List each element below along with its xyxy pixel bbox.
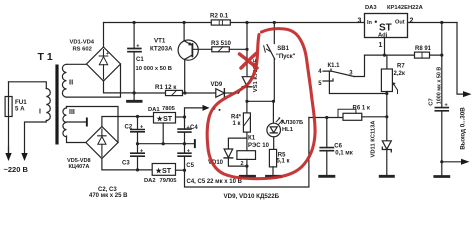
ground under R5	[267, 175, 281, 178]
svg-text:C4, C5 22 мк х 10 В: C4, C5 22 мк х 10 В	[187, 179, 243, 185]
wire top right branch	[441, 23, 443, 56]
svg-text:R2 0.1: R2 0.1	[210, 13, 229, 20]
wire VT1 base to R3	[192, 48, 247, 50]
wire output plus	[457, 23, 463, 95]
svg-text:АЛ307Б: АЛ307Б	[281, 120, 303, 126]
svg-text:КР142ЕН22А: КР142ЕН22А	[387, 5, 424, 11]
wire DA1 out arrow	[185, 108, 203, 117]
red marker loop annotation	[207, 29, 315, 179]
svg-text:VD1-VD4: VD1-VD4	[70, 40, 95, 46]
wire output minus	[442, 161, 461, 163]
svg-text:2,2к: 2,2к	[394, 71, 405, 77]
pushbutton SB1	[273, 23, 275, 44]
svg-text:+: +	[136, 44, 139, 50]
svg-text:VD11 КС113А: VD11 КС113А	[371, 120, 377, 158]
svg-text:R8 91: R8 91	[415, 46, 432, 52]
wire winding II bottom to bridge right	[67, 64, 121, 97]
svg-text:C2: C2	[125, 124, 133, 130]
ground under VD11	[380, 175, 393, 178]
winding III	[63, 107, 67, 137]
wire bridge1 minus to gnd node	[104, 81, 135, 93]
thyristor VS1	[246, 23, 248, 77]
ground under K1	[240, 175, 254, 178]
transformer T1 core	[55, 65, 58, 145]
fuse FU1	[8, 82, 10, 153]
svg-text:SB1: SB1	[277, 46, 289, 52]
svg-text:R4*: R4*	[231, 114, 242, 120]
node C5 bottom	[183, 169, 186, 172]
wire bridge2 plus rail	[102, 117, 154, 127]
svg-text:C5: C5	[186, 163, 194, 169]
svg-text:КТ203А: КТ203А	[150, 45, 173, 52]
svg-text:К1.1: К1.1	[328, 63, 341, 69]
svg-text:К1: К1	[248, 134, 256, 141]
svg-text:★ST: ★ST	[155, 166, 172, 175]
zener VD11 KS113A	[382, 141, 391, 149]
node gnd rail DA1	[162, 142, 165, 145]
svg-text:R3 510: R3 510	[211, 40, 232, 47]
node C7 bottom	[440, 160, 443, 163]
resistor R5 5.1k	[269, 149, 276, 167]
svg-text:RS 602: RS 602	[73, 46, 92, 52]
svg-text:79Л05: 79Л05	[160, 178, 178, 184]
wire top rail	[104, 22, 458, 24]
wire winding III top	[67, 107, 119, 143]
node gnd rail C4C5	[183, 142, 186, 145]
svg-text:РЭС 10: РЭС 10	[248, 143, 270, 149]
capacitor C3	[137, 144, 139, 154]
wire C1 node to R1	[134, 92, 165, 94]
svg-text:3: 3	[358, 18, 362, 25]
bridge rectifier VD1-VD4	[103, 23, 105, 48]
svg-text:★ST: ★ST	[156, 114, 173, 123]
svg-text:0,1 мк: 0,1 мк	[335, 151, 352, 157]
svg-text:DA3: DA3	[365, 5, 377, 11]
svg-text:R7: R7	[397, 64, 405, 70]
node C3 bottom	[136, 168, 139, 171]
svg-text:7805: 7805	[162, 106, 176, 112]
wire adj rail	[365, 54, 442, 56]
svg-text:C6: C6	[334, 143, 342, 149]
diode VD10	[228, 138, 247, 149]
svg-text:С7: С7	[428, 98, 434, 105]
bridge rectifier VD5-VD8	[86, 127, 118, 159]
wire zener branch	[386, 94, 388, 141]
svg-text:III: III	[69, 109, 75, 116]
svg-text:VD9: VD9	[211, 82, 223, 88]
svg-text:C4: C4	[190, 125, 198, 131]
node R1 VT1 emitter	[183, 91, 186, 94]
node C2 top	[136, 115, 139, 118]
svg-text:470 мк х 25 В: 470 мк х 25 В	[89, 193, 128, 199]
wire winding II top to bridge	[67, 63, 87, 65]
svg-text:DA2: DA2	[144, 178, 156, 184]
wire primary top	[9, 82, 47, 89]
svg-text:"Пуск": "Пуск"	[276, 54, 296, 60]
capacitor C7	[441, 55, 443, 108]
capacitor C2	[137, 117, 139, 130]
node top-rail C7 branch	[440, 21, 443, 24]
svg-text:+: +	[445, 103, 448, 109]
wire DA3 adj pin 1	[384, 38, 386, 56]
svg-text:Out: Out	[395, 20, 405, 26]
wire winding I return	[25, 121, 47, 154]
wire DA2 out	[176, 169, 185, 171]
wire R1 to VD9	[183, 92, 216, 94]
svg-text:II: II	[69, 78, 73, 87]
node R6 right	[385, 115, 388, 118]
svg-text:2: 2	[241, 161, 244, 167]
LED HL1	[272, 101, 274, 123]
chassis tap bar	[194, 139, 196, 148]
winding I	[46, 89, 50, 121]
svg-text:C1: C1	[136, 57, 144, 63]
svg-text:1 к: 1 к	[233, 121, 241, 127]
voltage regulator DA2 79L05	[152, 164, 175, 176]
node R3 VS1	[245, 48, 248, 51]
svg-text:4: 4	[318, 69, 322, 75]
svg-text:C3: C3	[122, 161, 130, 167]
red X mark	[240, 54, 258, 68]
node R6 left C6	[325, 116, 328, 119]
node C1 ground	[132, 91, 135, 94]
node top-rail VS1	[245, 21, 248, 24]
svg-text:10 000 х 50 В: 10 000 х 50 В	[136, 66, 172, 72]
svg-text:Выход 0...30В: Выход 0...30В	[459, 107, 466, 150]
capacitor C1	[133, 23, 135, 49]
svg-text:5,1 к: 5,1 к	[277, 159, 290, 165]
svg-text:HL1: HL1	[282, 127, 294, 133]
ground under C1	[133, 93, 135, 100]
node top-rail C1	[133, 21, 136, 24]
wire node rail VS1-SB1	[247, 100, 274, 102]
wire bridge2 minus rail	[102, 159, 152, 170]
svg-text:T 1: T 1	[38, 51, 53, 63]
svg-text:VD9, VD10 КД522Б: VD9, VD10 КД522Б	[224, 193, 280, 200]
node gnd rail C2C3	[136, 142, 139, 145]
arrow mains input right	[21, 153, 27, 161]
svg-text:+: +	[140, 125, 143, 131]
wire bottom return	[185, 118, 309, 188]
capacitor C6	[326, 118, 328, 148]
node top-rail SB1	[273, 21, 276, 24]
ground under C6	[320, 175, 334, 178]
ground output minus	[441, 162, 443, 176]
svg-text:R6 1 к: R6 1 к	[353, 105, 370, 111]
capacitor C5	[184, 144, 186, 154]
capacitor C4	[184, 117, 186, 129]
svg-text:+: +	[140, 148, 143, 154]
svg-text:1: 1	[379, 42, 383, 49]
svg-text:~220 В: ~220 В	[4, 165, 29, 174]
svg-text:1000 мк х 50 В: 1000 мк х 50 В	[437, 67, 443, 105]
svg-text:ST: ST	[379, 23, 392, 34]
svg-text:VT1: VT1	[154, 38, 166, 45]
svg-text:+: +	[187, 148, 190, 154]
wire DA1 out	[176, 116, 185, 118]
arrow mains input left	[8, 147, 10, 154]
svg-text:5: 5	[318, 81, 322, 87]
winding III center tap	[67, 121, 87, 123]
winding II	[62, 64, 66, 97]
node R7 bottom	[385, 92, 388, 95]
node DA1 out	[183, 115, 186, 118]
svg-text:КЦ407А: КЦ407А	[69, 164, 90, 170]
wire VD9 to VS1 gate	[224, 92, 238, 94]
svg-text:+: +	[106, 51, 109, 57]
wire K1.1 to rail	[329, 71, 386, 93]
node top-rail VT1 collector	[183, 21, 186, 24]
wire DA1 gnd pin	[162, 123, 164, 144]
svg-text:I: I	[39, 109, 41, 116]
svg-text:2: 2	[410, 18, 414, 25]
svg-text:In: In	[367, 20, 373, 26]
svg-text:5 А: 5 А	[15, 106, 25, 113]
wire winding III bottom	[67, 136, 86, 143]
wire ground rail mid	[138, 143, 194, 145]
